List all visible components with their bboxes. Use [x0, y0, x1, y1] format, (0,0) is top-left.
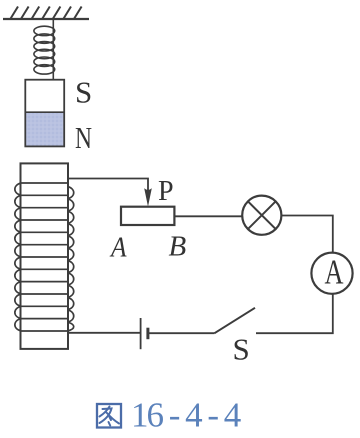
spring: [34, 19, 55, 80]
caption: hanzi 图: [97, 404, 121, 428]
wire ammeter to switch: [256, 294, 333, 333]
switch S: [215, 308, 256, 333]
battery: [141, 318, 148, 349]
wiper arrow P: [144, 188, 152, 206]
svg-text:S: S: [233, 332, 250, 367]
coil L: [15, 163, 74, 349]
magnet: [25, 80, 64, 147]
wire lamp to ammeter: [281, 216, 332, 253]
ammeter: [311, 253, 352, 294]
svg-text:P: P: [158, 176, 174, 207]
svg-text:N: N: [75, 120, 92, 155]
ceiling: [3, 7, 89, 20]
wire switch to battery: [148, 332, 214, 334]
wire coil top to wiper: [68, 179, 148, 191]
svg-text:A: A: [325, 253, 345, 292]
svg-text:16 - 4 - 4: 16 - 4 - 4: [131, 396, 241, 435]
rheostat AB: [121, 207, 174, 225]
wire rheostat to lamp: [174, 215, 242, 217]
svg-text:S: S: [75, 75, 92, 110]
svg-text:A: A: [109, 232, 126, 264]
wire battery to coil: [68, 332, 141, 334]
svg-text:B: B: [169, 231, 187, 263]
lamp: [242, 196, 281, 235]
